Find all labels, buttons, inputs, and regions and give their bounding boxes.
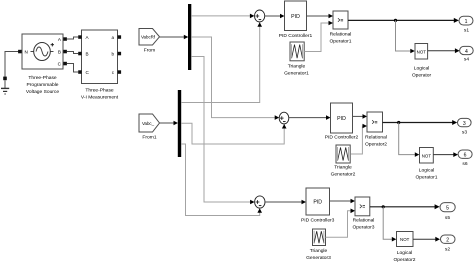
label Relational Operator1: [329, 32, 351, 45]
Relational Operator3: [355, 197, 370, 216]
svg-text:4: 4: [465, 49, 468, 55]
label Logical Operator1: [415, 168, 437, 181]
svg-text:Relational: Relational: [330, 32, 352, 38]
wire NOT to out s4: [428, 48, 460, 53]
label Logical Operator: [412, 66, 432, 79]
ground: [1, 77, 9, 94]
svg-text:Three-Phase: Three-Phase: [85, 88, 114, 94]
svg-text:s3: s3: [462, 130, 467, 136]
svg-text:NOT: NOT: [417, 49, 427, 54]
wire From1 to Demux2: [160, 121, 179, 126]
svg-text:PID: PID: [337, 116, 346, 122]
wire PID2 to Relational Operator2 in1: [353, 114, 368, 119]
label Triangle Generator3: [306, 248, 331, 261]
label Three-Phase Programmable Voltage Source: [26, 75, 59, 95]
wire branch to Logical Operator1: [399, 123, 420, 157]
svg-text:Operator2: Operator2: [393, 257, 415, 263]
svg-text:b: b: [111, 52, 114, 57]
svg-text:Operator2: Operator2: [365, 142, 387, 148]
svg-text:s4: s4: [464, 57, 469, 63]
svg-text:NOT: NOT: [400, 237, 410, 242]
wire Relational Operator1 to out s1: [348, 18, 459, 23]
svg-text:From: From: [144, 48, 155, 54]
wire NOT1 to out s6: [433, 152, 458, 157]
label Triangle Generator2: [331, 165, 356, 178]
wire Relational Operator3 to out s5: [370, 204, 440, 209]
wire source A to measurement A: [67, 37, 78, 39]
Triangle Generator1: [290, 42, 304, 61]
svg-text:NOT: NOT: [422, 153, 432, 158]
voltage source block: [18, 34, 67, 69]
svg-text:3: 3: [463, 121, 466, 127]
svg-text:Relational: Relational: [365, 135, 387, 141]
svg-text:Operator3: Operator3: [352, 225, 374, 231]
wire Sum1 to PID1: [265, 14, 285, 19]
demux Demux1: [188, 4, 191, 70]
svg-text:s1: s1: [464, 28, 469, 34]
svg-text:VabcRf: VabcRf: [141, 35, 156, 40]
label Three-Phase V-I Measurement: [81, 88, 119, 101]
svg-text:s2: s2: [445, 247, 450, 253]
Triangle Generator3: [313, 229, 326, 246]
From block VabcRf: [139, 29, 160, 46]
sum junction Sum1: [255, 10, 265, 22]
wire Triangle Generator2 to Relational Operator2 in2: [350, 124, 367, 154]
svg-text:V-I Measurement: V-I Measurement: [81, 95, 119, 101]
wire Demux1 out3 to Sum3 (reference c): [191, 57, 254, 205]
svg-text:Operator1: Operator1: [415, 175, 437, 181]
wire Triangle Generator3 to Relational Operator3 in2: [326, 209, 356, 238]
wire Demux1 out2 to Sum2 (reference b): [191, 37, 279, 120]
wire PID1 to Relational Operator1 in1: [307, 14, 334, 19]
wire Demux2 out3 to Sum3 bottom (measured c): [181, 144, 262, 216]
sum junction Sum3: [255, 196, 265, 208]
wire branch to Logical Operator2: [383, 207, 396, 242]
wire Relational Operator2 to out s3: [383, 120, 458, 125]
svg-text:PID: PID: [313, 200, 322, 206]
wire Demux2 out2 to Sum2 bottom (measured b): [181, 123, 287, 144]
Triangle Generator2: [336, 145, 350, 163]
svg-text:Triangle: Triangle: [310, 248, 328, 254]
svg-text:a: a: [111, 35, 114, 40]
demux Demux2: [178, 90, 181, 157]
wire source B to measurement B: [67, 52, 78, 54]
svg-text:PID Controller3: PID Controller3: [301, 218, 335, 224]
svg-text:1: 1: [465, 19, 468, 25]
svg-text:Generator1: Generator1: [284, 71, 309, 77]
svg-text:PID Controller2: PID Controller2: [325, 135, 359, 141]
wire Sum2 to PID2: [289, 115, 331, 120]
wire branch to Logical Operator: [396, 20, 415, 53]
sum junction Sum2: [279, 112, 289, 124]
outport 1: [459, 16, 473, 25]
svg-text:Voltage Source: Voltage Source: [26, 89, 59, 95]
svg-text:Triangle: Triangle: [288, 64, 306, 70]
svg-text:s6: s6: [462, 161, 467, 167]
outport 2: [441, 235, 456, 244]
svg-text:Vabc_: Vabc_: [142, 121, 155, 126]
svg-text:Operator: Operator: [412, 73, 432, 79]
PID Controller2: [331, 103, 353, 133]
svg-text:s5: s5: [445, 215, 450, 221]
svg-text:PID: PID: [291, 14, 300, 20]
outport 4: [460, 46, 474, 54]
outport 5: [440, 203, 455, 212]
wire Demux2 out1 to Sum1 bottom (measured a): [181, 22, 262, 102]
PID Controller1: [285, 1, 307, 31]
outport 6: [458, 150, 472, 159]
V-I measurement block: [78, 30, 121, 84]
wire NOT2 to out s2: [413, 237, 440, 242]
svg-text:Three-Phase: Three-Phase: [28, 75, 57, 81]
outport 3: [458, 118, 472, 127]
wire From to Demux1: [160, 35, 189, 40]
svg-text:B: B: [58, 50, 61, 55]
svg-text:PID Controller1: PID Controller1: [279, 33, 313, 39]
label Triangle Generator1: [284, 64, 309, 77]
NOT Logical Operator2: [397, 232, 414, 247]
wire PID3 to Relational Operator3 in1: [330, 199, 356, 204]
svg-text:N: N: [25, 50, 28, 55]
svg-text:Logical: Logical: [419, 168, 435, 174]
svg-text:5: 5: [446, 206, 449, 212]
wire Demux1 out1 to Sum1: [191, 14, 254, 19]
svg-text:6: 6: [464, 153, 467, 159]
svg-text:Programmable: Programmable: [26, 82, 58, 88]
Relational Operator1: [333, 11, 348, 29]
svg-text:Triangle: Triangle: [334, 165, 352, 171]
svg-text:B: B: [86, 52, 89, 57]
PID Controller3: [306, 188, 330, 215]
wire Triangle Generator1 to Relational Operator1 in2: [304, 21, 333, 52]
wire source C to measurement C: [67, 64, 78, 73]
svg-text:Operator1: Operator1: [329, 39, 351, 45]
svg-text:Logical: Logical: [414, 66, 430, 72]
label Logical Operator2: [393, 250, 415, 263]
wire N to ground: [5, 52, 20, 78]
From1 block Vabc: [139, 114, 160, 132]
NOT Logical Operator1: [420, 148, 434, 164]
label Relational Operator2: [365, 135, 387, 148]
svg-text:Relational: Relational: [353, 218, 375, 224]
svg-text:From1: From1: [142, 135, 156, 141]
wire Sum3 to PID3: [265, 200, 306, 205]
label Relational Operator3: [352, 218, 374, 231]
svg-text:Generator2: Generator2: [331, 172, 356, 178]
Relational Operator2: [367, 112, 383, 132]
svg-text:Generator3: Generator3: [306, 255, 331, 261]
NOT Logical Operator: [415, 44, 428, 60]
svg-text:2: 2: [446, 238, 449, 244]
svg-text:Logical: Logical: [397, 250, 413, 256]
